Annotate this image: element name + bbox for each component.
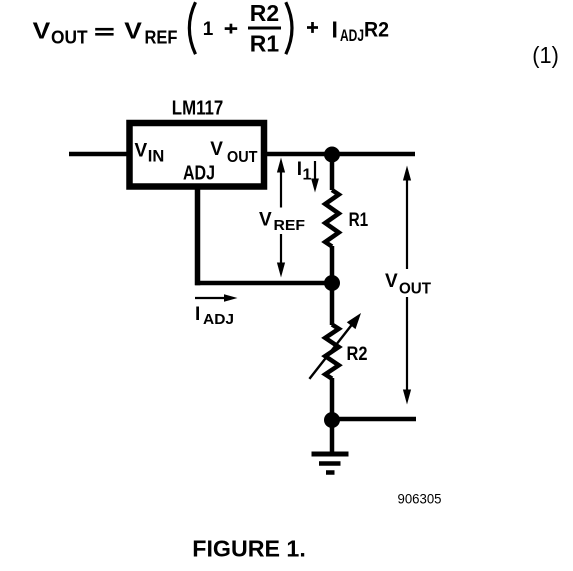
label I1 [297,159,312,183]
svg-text:OUT: OUT [399,281,431,298]
svg-text:I: I [195,304,200,325]
label Vref [259,210,305,234]
svg-text:OUT: OUT [227,149,258,166]
svg-text:R2: R2 [347,344,368,365]
svg-text:1: 1 [303,167,312,184]
resistor R2 zigzag (variable) [325,325,339,379]
svg-text:OUT: OUT [51,27,88,47]
svg-text:V: V [124,18,142,44]
node: VOUT junction [324,147,340,163]
svg-text:ADJ: ADJ [183,163,215,185]
arrow: I1 current direction [311,161,319,193]
svg-text:1: 1 [203,19,214,40]
pin label VOUT [210,139,257,166]
equation (1): equals sign [95,28,113,31]
arrow: R2 wiper diagonal [309,313,361,379]
arrow: Iadj current direction [195,294,238,302]
svg-text:I: I [297,159,302,180]
svg-text:R2: R2 [250,0,279,26]
equation (1): Vout term [33,18,88,48]
label Vout (right) [385,271,431,298]
arrow: Vout measurement double arrow [403,166,411,405]
equation (1): Vref term [124,18,177,48]
svg-text:V: V [135,141,148,162]
svg-text:ADJ: ADJ [340,26,364,45]
svg-text:R2: R2 [364,17,389,41]
arrow: Vref measurement double arrow [277,158,285,278]
svg-text:FIGURE 1.: FIGURE 1. [192,536,305,562]
wire: ADJ pin drop [195,186,201,285]
svg-text:ADJ: ADJ [203,311,234,328]
wire: ADJ horizontal to node [195,281,332,286]
wire: ADJ node to R2 top [330,283,335,325]
wire: R1 bottom to ADJ node [330,246,335,283]
svg-text:IN: IN [148,148,165,166]
svg-text:V: V [259,210,272,231]
svg-text:V: V [33,18,51,44]
node: ground junction [324,412,340,428]
equation (1): Iadj R2 term [332,17,390,46]
svg-text:REF: REF [274,217,306,234]
svg-text:REF: REF [145,27,178,47]
svg-text:V: V [385,271,398,292]
wire: node to R1 top [330,154,335,190]
svg-text:906305: 906305 [398,491,442,507]
label Iadj [195,304,234,328]
equation (1): plus inside parens [225,27,238,30]
ground stem wire [330,420,335,454]
equation (1): fraction bar [248,27,281,30]
node: ADJ junction [324,275,340,291]
resistor R1 zigzag [325,190,339,247]
svg-text:I: I [332,17,338,43]
pin label VIN [135,141,165,166]
svg-text:R1: R1 [349,210,369,231]
svg-text:V: V [210,139,223,160]
equation (1): left parenthesis [189,2,195,54]
wire: ground node to output return [332,417,416,422]
svg-text:LM117: LM117 [172,97,224,119]
wire: VOUT to output node [264,152,415,157]
equation (1): right parenthesis [286,2,292,54]
wire: R2 bottom to ground node [330,378,335,420]
ground symbol [312,454,349,473]
svg-text:R1: R1 [250,31,280,57]
wire: input to VIN [69,152,130,157]
regulator U1 LM117 body [130,123,265,187]
equation (1): plus after parens [307,26,318,29]
svg-text:(1): (1) [532,42,559,68]
